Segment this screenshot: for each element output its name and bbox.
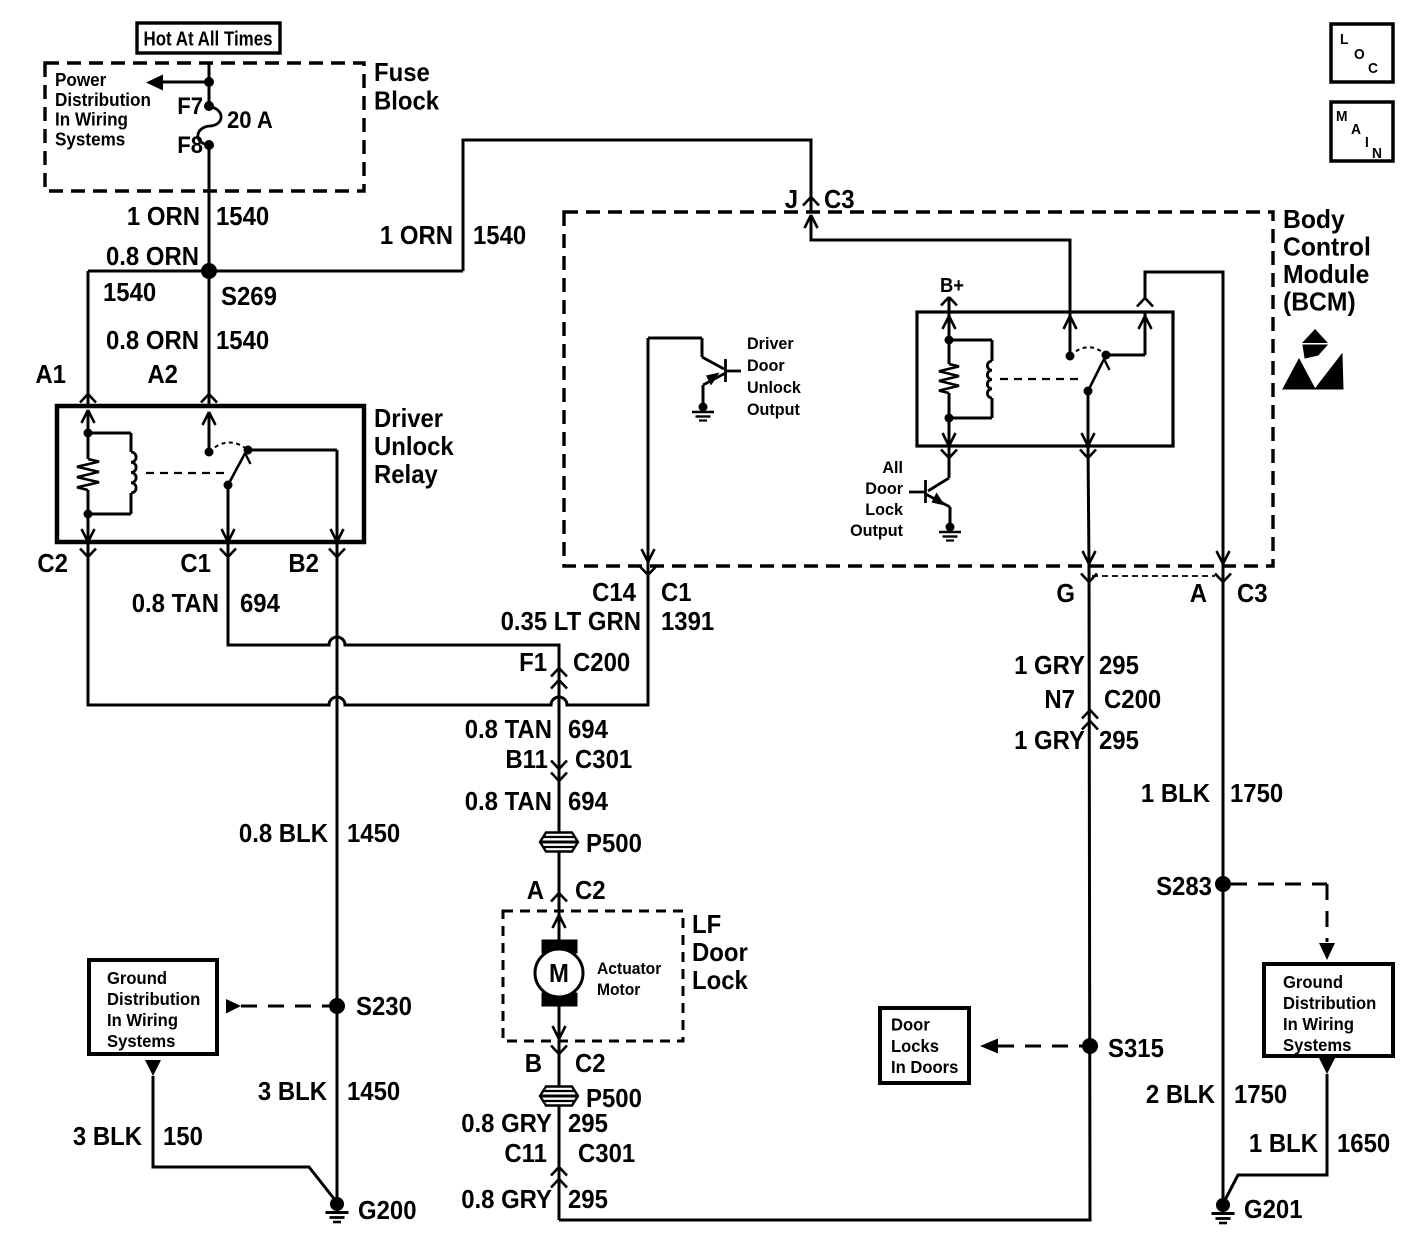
svg-text:In Wiring: In Wiring	[55, 110, 128, 130]
svg-text:In Wiring: In Wiring	[1283, 1014, 1354, 1034]
svg-text:Systems: Systems	[1283, 1035, 1352, 1055]
svg-text:C2: C2	[37, 548, 68, 578]
svg-text:1540: 1540	[103, 277, 156, 307]
svg-text:1540: 1540	[216, 325, 269, 355]
svg-text:G200: G200	[358, 1195, 417, 1225]
svg-text:295: 295	[568, 1184, 608, 1214]
svg-text:C301: C301	[575, 744, 632, 774]
svg-text:Lock: Lock	[692, 965, 748, 995]
svg-text:1540: 1540	[473, 220, 526, 250]
svg-text:1391: 1391	[661, 606, 714, 636]
svg-text:20 A: 20 A	[227, 107, 273, 134]
svg-text:1450: 1450	[347, 818, 400, 848]
svg-text:All: All	[882, 458, 903, 477]
svg-text:L: L	[1340, 31, 1348, 48]
svg-text:1 GRY: 1 GRY	[1014, 650, 1085, 680]
svg-text:Fuse: Fuse	[374, 57, 430, 87]
svg-text:1 ORN: 1 ORN	[127, 201, 200, 231]
svg-text:C3: C3	[824, 184, 855, 214]
svg-text:Lock: Lock	[865, 500, 903, 519]
svg-text:C1: C1	[661, 577, 692, 607]
svg-text:1750: 1750	[1230, 778, 1283, 808]
svg-text:Driver: Driver	[374, 403, 443, 433]
svg-text:0.8 TAN: 0.8 TAN	[465, 714, 552, 744]
svg-text:S230: S230	[356, 991, 412, 1021]
svg-text:C: C	[1368, 60, 1378, 77]
svg-text:G: G	[1056, 578, 1075, 608]
svg-text:3 BLK: 3 BLK	[258, 1076, 327, 1106]
svg-text:1 BLK: 1 BLK	[1249, 1128, 1318, 1158]
svg-text:0.8 ORN: 0.8 ORN	[106, 325, 199, 355]
svg-text:Door: Door	[891, 1015, 930, 1035]
svg-text:Locks: Locks	[891, 1036, 939, 1056]
svg-text:G201: G201	[1244, 1194, 1303, 1224]
svg-text:A2: A2	[147, 359, 178, 389]
svg-text:0.8 GRY: 0.8 GRY	[461, 1184, 552, 1214]
svg-text:(BCM): (BCM)	[1283, 287, 1356, 317]
svg-text:1 GRY: 1 GRY	[1014, 725, 1085, 755]
svg-text:Block: Block	[374, 86, 440, 116]
svg-text:694: 694	[568, 786, 608, 816]
svg-text:295: 295	[1099, 725, 1139, 755]
svg-text:B2: B2	[288, 548, 319, 578]
svg-text:P500: P500	[586, 828, 642, 858]
svg-text:A1: A1	[35, 359, 66, 389]
svg-text:Distribution: Distribution	[107, 989, 200, 1009]
svg-text:295: 295	[568, 1108, 608, 1138]
svg-text:694: 694	[568, 714, 608, 744]
svg-text:0.8 TAN: 0.8 TAN	[132, 588, 219, 618]
svg-text:A: A	[1190, 578, 1208, 608]
svg-text:In Doors: In Doors	[891, 1057, 959, 1077]
svg-text:Motor: Motor	[597, 980, 641, 999]
svg-text:Distribution: Distribution	[1283, 993, 1376, 1013]
svg-text:2 BLK: 2 BLK	[1146, 1079, 1215, 1109]
svg-text:0.35 LT GRN: 0.35 LT GRN	[501, 606, 641, 636]
svg-text:Control: Control	[1283, 232, 1371, 262]
svg-text:S283: S283	[1156, 871, 1212, 901]
svg-text:C200: C200	[1104, 684, 1161, 714]
svg-text:Hot At All Times: Hot At All Times	[144, 29, 273, 51]
svg-text:694: 694	[240, 588, 280, 618]
svg-text:Driver: Driver	[747, 334, 794, 353]
svg-text:0.8 TAN: 0.8 TAN	[465, 786, 552, 816]
svg-text:Relay: Relay	[374, 459, 438, 489]
svg-text:C301: C301	[578, 1138, 635, 1168]
svg-text:Module: Module	[1283, 259, 1369, 289]
svg-text:F8: F8	[177, 132, 203, 159]
svg-text:C2: C2	[575, 1048, 606, 1078]
svg-text:O: O	[1354, 46, 1365, 63]
svg-text:C11: C11	[504, 1138, 547, 1168]
svg-text:S315: S315	[1108, 1033, 1164, 1063]
svg-text:3 BLK: 3 BLK	[73, 1121, 142, 1151]
svg-text:Unlock: Unlock	[747, 378, 801, 397]
svg-text:B+: B+	[940, 275, 964, 297]
svg-text:C2: C2	[575, 875, 606, 905]
svg-text:150: 150	[163, 1121, 203, 1151]
svg-text:In Wiring: In Wiring	[107, 1010, 178, 1030]
svg-text:A: A	[527, 875, 545, 905]
svg-text:1 ORN: 1 ORN	[380, 220, 453, 250]
svg-text:0.8 ORN: 0.8 ORN	[106, 241, 199, 271]
svg-text:F7: F7	[177, 93, 203, 120]
svg-text:LF: LF	[692, 909, 721, 939]
svg-text:Door: Door	[747, 356, 785, 375]
svg-text:Power: Power	[55, 70, 106, 90]
svg-text:295: 295	[1099, 650, 1139, 680]
svg-text:N: N	[1372, 145, 1382, 162]
svg-text:1650: 1650	[1337, 1128, 1390, 1158]
svg-text:C3: C3	[1237, 578, 1268, 608]
svg-text:B11: B11	[505, 744, 548, 774]
svg-text:Unlock: Unlock	[374, 431, 454, 461]
svg-text:S269: S269	[221, 281, 277, 311]
svg-text:Distribution: Distribution	[55, 90, 151, 110]
svg-text:Systems: Systems	[107, 1031, 176, 1051]
svg-text:N7: N7	[1044, 684, 1075, 714]
svg-text:C200: C200	[573, 647, 630, 677]
svg-text:A: A	[1351, 121, 1361, 138]
svg-text:1540: 1540	[216, 201, 269, 231]
svg-text:M: M	[549, 958, 569, 988]
svg-text:Ground: Ground	[1283, 972, 1343, 992]
svg-text:F1: F1	[519, 647, 547, 677]
svg-text:0.8 GRY: 0.8 GRY	[461, 1108, 552, 1138]
svg-text:C14: C14	[592, 577, 636, 607]
svg-text:Body: Body	[1283, 204, 1345, 234]
svg-text:M: M	[1336, 108, 1348, 125]
svg-text:Door: Door	[865, 479, 903, 498]
svg-text:B: B	[525, 1048, 542, 1078]
svg-text:Output: Output	[747, 400, 800, 419]
svg-text:Actuator: Actuator	[597, 959, 662, 978]
svg-text:1750: 1750	[1234, 1079, 1287, 1109]
svg-text:0.8 BLK: 0.8 BLK	[239, 818, 328, 848]
svg-text:Ground: Ground	[107, 968, 167, 988]
svg-text:Systems: Systems	[55, 129, 125, 149]
svg-text:1 BLK: 1 BLK	[1141, 778, 1210, 808]
svg-text:1450: 1450	[347, 1076, 400, 1106]
svg-text:J: J	[785, 184, 798, 214]
svg-text:I: I	[1365, 134, 1369, 151]
svg-text:Door: Door	[692, 937, 748, 967]
svg-text:Output: Output	[850, 521, 903, 540]
svg-text:C1: C1	[180, 548, 211, 578]
